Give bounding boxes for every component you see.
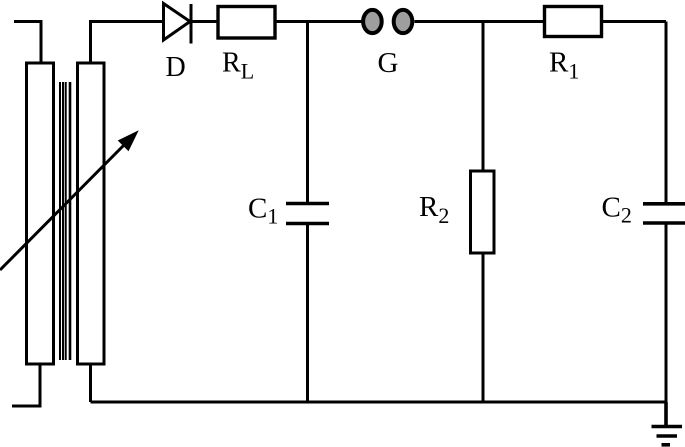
wire RL to G (275, 20, 362, 23)
transformer core (60, 82, 70, 360)
capacitor C1 (286, 22, 329, 403)
svg-text:D: D (166, 52, 186, 83)
wire bottom bus (91, 401, 667, 404)
wire G to R1 (415, 20, 545, 23)
wire secondary top to diode anode (91, 22, 163, 64)
capacitor C2 (643, 22, 685, 403)
transformer secondary winding (78, 63, 105, 364)
diode D (164, 4, 192, 44)
variac arrow (0, 134, 136, 271)
svg-text:R2: R2 (419, 191, 449, 228)
wire R1 to right branch (602, 20, 667, 23)
wire primary bottom terminal (12, 364, 40, 406)
svg-text:C2: C2 (602, 192, 632, 228)
resistor R2 (471, 22, 495, 403)
ground (652, 402, 683, 445)
wire secondary bottom lead (89, 364, 92, 402)
wire diode to RL (191, 20, 218, 23)
wire top-left primary terminal (14, 22, 41, 64)
connector G (363, 10, 412, 33)
transformer primary winding (27, 63, 54, 364)
svg-text:C1: C1 (248, 193, 278, 229)
svg-text:G: G (378, 47, 399, 79)
svg-text:RL: RL (222, 48, 254, 84)
resistor RL (218, 7, 275, 39)
resistor R1 (545, 7, 602, 37)
svg-text:R1: R1 (549, 47, 579, 84)
